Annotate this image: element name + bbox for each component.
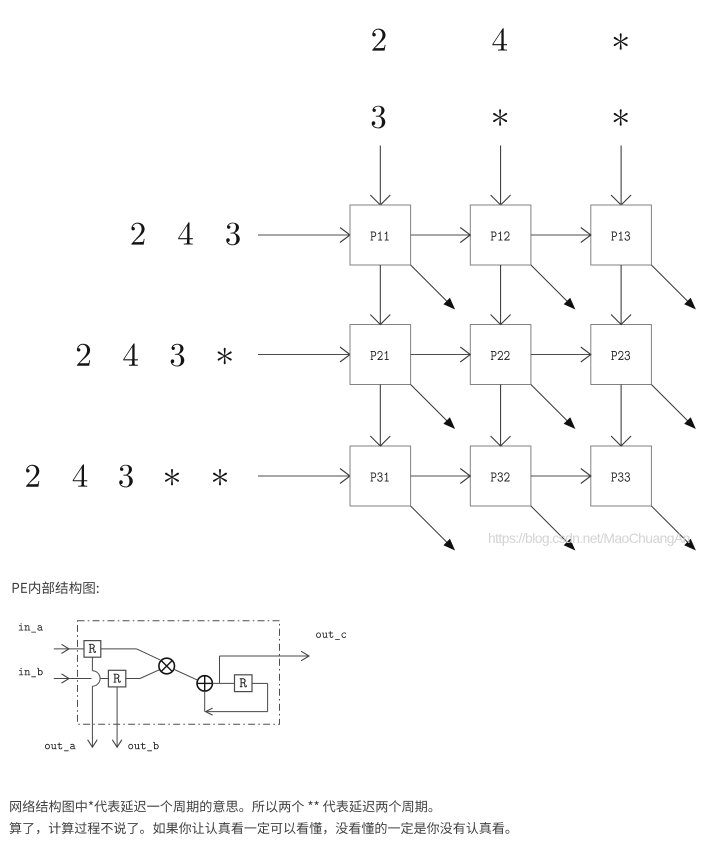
row 3 input sequence labels	[26, 464, 227, 487]
register R3	[235, 675, 253, 692]
wire: R2 to multiplier	[126, 670, 160, 679]
wire: diagonal output arrow from P13	[651, 265, 696, 310]
wire: R1 down to out_a with hop over in_b	[88, 657, 101, 747]
column 2 input label row1: 4	[492, 28, 507, 50]
wire: diagonal output arrow from P12	[531, 265, 576, 310]
wire: P23 down to P33	[611, 385, 631, 447]
wire: R2 down to out_b	[112, 687, 122, 747]
wire: top feed arrow into P13	[611, 146, 631, 206]
wire: diagonal output arrow from P33	[651, 506, 696, 551]
column 3 input label row1: *	[614, 33, 628, 49]
wire: P21 down to P31	[370, 385, 390, 447]
wire: diagonal output arrow from P11	[411, 265, 456, 310]
column 3 input label row2: *	[614, 109, 628, 125]
wire: P31 to P32	[411, 469, 471, 484]
PE dashed boundary box	[78, 621, 280, 725]
note line 1	[10, 800, 432, 812]
wire: left feed arrow into P21	[258, 347, 350, 362]
PE box P23	[591, 325, 652, 385]
wire: P21 to P22	[411, 347, 471, 362]
label out_b	[128, 742, 158, 751]
label in_b	[19, 668, 43, 677]
wire: P12 to P13	[531, 228, 591, 243]
label out_a	[45, 743, 76, 752]
PE box P21	[350, 325, 411, 385]
wire: out_c arrow	[220, 651, 310, 683]
wire: P13 down to P23	[611, 265, 631, 325]
PE diagram title	[13, 581, 99, 594]
wire: left feed arrow into P31	[258, 469, 350, 484]
wire: feedback loop R3 to adder	[206, 683, 268, 715]
label out_c	[316, 631, 346, 640]
wire: R1 to multiplier	[101, 649, 160, 660]
wire: P11 down to P21	[370, 265, 390, 325]
wire: diagonal output arrow from P21	[411, 385, 456, 430]
wire: diagonal output arrow from P31	[411, 506, 456, 551]
wire: in_b input arrow (with gap under hop)	[54, 674, 109, 683]
PE box P32	[470, 446, 531, 506]
row 2 input sequence labels	[77, 344, 232, 367]
PE box P11	[350, 205, 411, 265]
wire: left feed arrow into P11	[258, 228, 350, 243]
PE box P12	[470, 205, 531, 265]
wire: adder bottom junction	[204, 691, 206, 712]
wire: P22 down to P32	[491, 385, 511, 447]
wire: top feed arrow into P12	[491, 146, 511, 206]
note line 2	[10, 822, 510, 835]
row 1 input sequence labels	[131, 222, 239, 245]
PE box P13	[591, 205, 652, 265]
wire: top feed arrow into P11	[370, 146, 390, 206]
wire: P32 to P33	[531, 469, 591, 484]
wire: diagonal output arrow from P32	[531, 506, 576, 551]
wire: diagonal output arrow from P22	[531, 385, 576, 430]
register R2	[108, 670, 125, 687]
svg-text:https://blog.csdn.net/MaoChuan: https://blog.csdn.net/MaoChuangAn	[488, 530, 690, 546]
wire: multiplier to adder	[174, 669, 198, 680]
wire: P22 to P23	[531, 347, 591, 362]
wire: in_a input arrow	[54, 644, 84, 653]
column 1 input label row2: 3	[372, 106, 386, 129]
column 1 input label row1: 2	[372, 29, 385, 51]
wire: adder to R3	[212, 682, 234, 684]
PE box P33	[591, 446, 652, 506]
multiplier circle	[159, 658, 175, 674]
wire: P11 to P12	[411, 228, 471, 243]
register R1	[84, 641, 101, 658]
label in_a	[19, 623, 43, 632]
wire: diagonal output arrow from P23	[651, 385, 696, 430]
wire: P12 down to P22	[491, 265, 511, 325]
column 2 input label row2: *	[493, 109, 507, 125]
PE box P22	[470, 325, 531, 385]
PE box P31	[350, 446, 411, 506]
adder circle	[197, 676, 212, 691]
